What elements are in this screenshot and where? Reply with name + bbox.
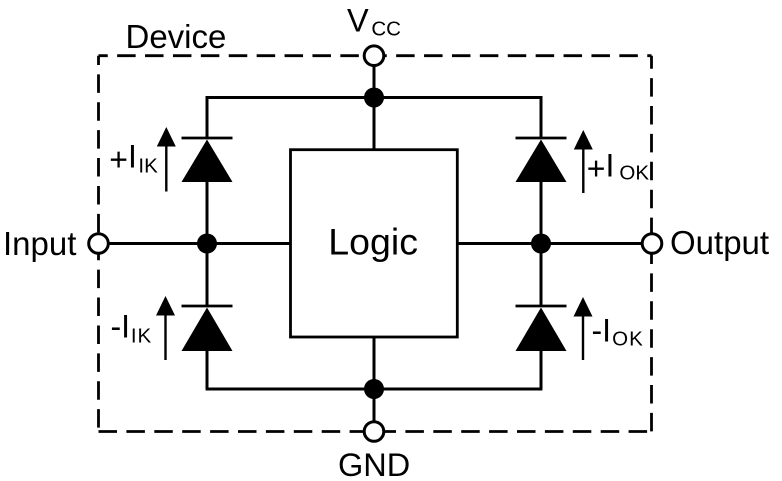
wire left diode D1 to node A — [206, 182, 209, 244]
device boundary top edge (dashed) — [99, 54, 652, 57]
junction dot node A — [197, 234, 217, 254]
diode D2 (input clamp to GND) — [182, 306, 233, 351]
wire node B to diode D4 — [540, 244, 543, 308]
current arrow +IIK — [157, 127, 176, 192]
diode D4 (output clamp to GND) — [516, 306, 567, 351]
current arrow -IOK — [574, 297, 593, 360]
wire input — [99, 242, 208, 245]
device boundary bottom edge (dashed) — [99, 430, 652, 433]
junction dot node B — [531, 234, 551, 254]
diode D3 (output clamp to VCC) — [516, 138, 567, 182]
junction dot top — [364, 88, 384, 108]
terminal GND — [364, 422, 384, 442]
wire bottom rail — [206, 388, 543, 391]
logic block U1 — [291, 150, 458, 337]
wire diode D2 to bottom rail — [206, 351, 209, 390]
wire logic right to node B — [457, 242, 541, 245]
wire bottom rail to GND — [373, 389, 376, 432]
wire node A to logic left — [207, 242, 291, 245]
wire output — [541, 242, 652, 245]
current arrow -IIK — [156, 296, 175, 360]
terminal Output — [642, 234, 662, 254]
wire top rail to logic — [373, 98, 376, 150]
wire top rail — [206, 96, 543, 99]
terminal VCC — [364, 46, 384, 66]
svg-text:Logic: Logic — [328, 221, 418, 263]
wire logic to bottom rail — [373, 337, 376, 389]
wire VCC to top rail — [373, 56, 376, 98]
svg-text:Output: Output — [670, 224, 769, 261]
current arrow +IOK — [574, 130, 593, 193]
junction dot bottom — [364, 379, 384, 399]
device boundary left edge (dashed) — [97, 56, 100, 432]
terminal Input — [89, 234, 109, 254]
wire diode D4 to bottom rail — [540, 351, 543, 390]
diode D1 (input clamp to VCC) — [182, 138, 233, 182]
wire right column upper — [540, 98, 543, 140]
device boundary right edge (dashed) — [650, 56, 653, 432]
wire left column upper — [206, 98, 209, 140]
wire diode D3 to node B — [540, 182, 543, 244]
svg-text:Device: Device — [126, 18, 227, 55]
svg-text:GND: GND — [338, 447, 410, 481]
svg-text:Input: Input — [3, 225, 76, 262]
wire node A to diode D2 — [206, 244, 209, 308]
